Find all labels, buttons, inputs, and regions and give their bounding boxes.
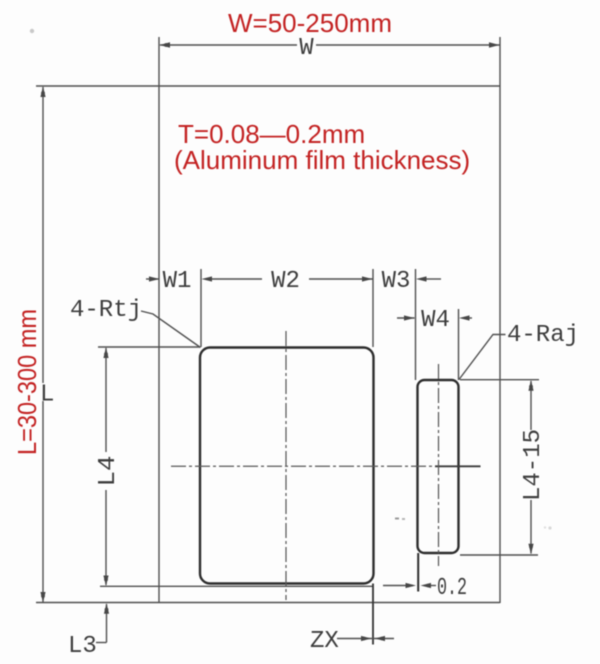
extension line L4-15 top [460,379,539,381]
svg-text:L4-15: L4-15 [520,429,547,501]
dimension L3 [106,604,108,643]
slot left edge extension down [417,553,419,592]
svg-text:ZX: ZX [310,628,339,655]
dimension L line [42,87,44,383]
extension line W3 right boundary [415,269,417,380]
svg-text:0.2: 0.2 [437,575,467,602]
svg-text:L3: L3 [68,633,97,660]
dimension W1 [146,278,160,280]
extension line L4 top [98,346,200,348]
extension line W2/W3 boundary [372,269,374,347]
extension line W1/W2 boundary [200,269,202,347]
svg-text:W1: W1 [163,268,192,295]
dimension L4-15 [530,381,532,430]
vertical centerline of big square [285,331,287,600]
outer outline left edge (also W left extension) [158,37,160,603]
dimension W left arrow [160,42,171,48]
svg-text:L: L [40,382,54,409]
dimension W4 [397,317,415,319]
extension line L4 bottom [100,585,373,587]
svg-text:(Aluminum film thickness): (Aluminum film thickness) [174,145,470,175]
big square right edge extension down [372,584,374,645]
outer outline top edge (also L top extension) [36,85,500,87]
dimension 0.2 [383,585,413,587]
extension line W4 right boundary [458,309,460,380]
dimension L top arrow [40,87,45,98]
extension line L4-15 bottom [460,554,538,556]
dimension L bottom arrow [40,592,45,603]
svg-text:W4: W4 [421,307,450,334]
arrow knots (loop-style arrowheads) [164,43,168,47]
svg-text:W=50-250mm: W=50-250mm [228,8,392,38]
small artifact dashes [395,518,399,520]
dimension W2 [202,276,213,281]
horizontal centerline [171,465,481,467]
dimension W line [160,44,297,46]
small rounded slot outline [418,380,459,553]
dark centerline segment right [435,465,481,467]
leader 4-Rtj [141,311,201,348]
smudge dot top-left [30,29,34,33]
svg-text:W: W [299,35,314,62]
leader 4-Raj [459,335,506,380]
vertical centerline of slot [438,364,440,566]
big rounded square outline [200,348,374,584]
outer outline bottom edge (also L bottom extension) [36,602,500,604]
outer outline right edge (also W right extension) [499,37,501,603]
dimension L4 [105,348,107,452]
svg-text:4-Rtj: 4-Rtj [70,297,142,324]
dimension W right arrow [489,42,500,48]
svg-text:L=30-300 mm: L=30-300 mm [12,309,42,455]
svg-text:W3: W3 [382,268,411,295]
svg-text:L4: L4 [95,456,122,487]
svg-text:W2: W2 [271,268,300,295]
faint smudge right [548,526,551,529]
svg-text:4-Raj: 4-Raj [507,322,579,349]
